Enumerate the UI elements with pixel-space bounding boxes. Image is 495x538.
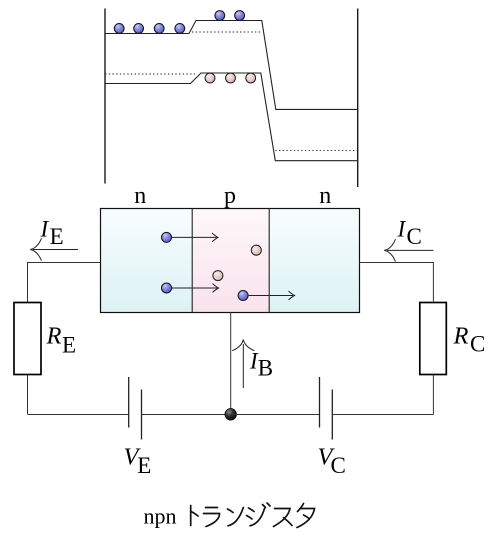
emitter-base junction <box>191 209 193 313</box>
hole band 1 <box>205 73 215 83</box>
caption katakana to <box>191 506 198 526</box>
base wire <box>230 313 232 415</box>
electron in emitter <box>162 232 172 242</box>
svg-text:n: n <box>134 183 146 209</box>
collector wire top <box>360 263 434 303</box>
caption katakana n <box>228 508 244 526</box>
band diagram left boundary <box>104 9 106 184</box>
svg-text:C: C <box>470 332 485 357</box>
battery VE left plate <box>128 377 130 428</box>
hole band 2 <box>226 73 236 83</box>
wire to RC <box>432 375 434 415</box>
svg-text:p: p <box>224 183 236 209</box>
dotted level right <box>275 149 357 151</box>
caption katakana ji <box>247 503 271 526</box>
electron flow arrow 1 <box>172 233 218 242</box>
caption katakana ta <box>297 504 315 528</box>
wire RE to bottom <box>27 375 29 415</box>
hole in base 2 <box>213 271 223 281</box>
caption katakana ra <box>204 508 220 527</box>
electron band 5 <box>215 11 225 21</box>
electron flow arrow 3 <box>249 291 295 300</box>
battery VE right plate <box>141 390 143 440</box>
svg-text:B: B <box>258 356 273 381</box>
hole band 3 <box>246 73 256 83</box>
IB arrow <box>232 340 254 389</box>
bottom left wire <box>28 414 129 416</box>
svg-text:n: n <box>319 183 331 209</box>
electron flow arrow 2 <box>172 284 219 293</box>
dotted level left <box>105 73 195 75</box>
electron band 1 <box>114 24 124 34</box>
band diagram right boundary <box>357 9 359 188</box>
IC arrow <box>384 239 433 261</box>
resistor RE <box>14 303 41 375</box>
ground node <box>225 409 237 421</box>
electron band 3 <box>154 24 164 34</box>
transistor body outline <box>101 209 360 313</box>
svg-text:I: I <box>397 216 407 241</box>
valence band edge <box>105 73 358 161</box>
dotted level middle <box>192 31 262 33</box>
base p region <box>192 209 269 313</box>
electron band 6 <box>235 11 245 21</box>
svg-text:E: E <box>137 453 151 478</box>
wire node to VC <box>231 414 320 416</box>
battery VC right plate <box>331 390 333 440</box>
emitter wire top <box>28 263 101 303</box>
IE arrow <box>30 238 78 260</box>
electron crossing to collector <box>238 291 248 301</box>
electron in emitter 2 <box>162 283 172 293</box>
svg-text:C: C <box>331 453 346 478</box>
svg-text:C: C <box>407 224 422 249</box>
svg-text:E: E <box>62 332 76 357</box>
electron band 2 <box>134 24 144 34</box>
electron band 4 <box>175 24 185 34</box>
battery VC left plate <box>319 377 321 428</box>
svg-text:R: R <box>46 323 62 350</box>
resistor RC <box>420 303 447 375</box>
svg-text:npn: npn <box>144 504 177 529</box>
base-collector junction <box>268 209 270 313</box>
svg-text:I: I <box>40 217 50 242</box>
wire VE to ground node <box>142 414 231 416</box>
hole in base 1 <box>251 245 261 255</box>
svg-text:R: R <box>453 323 469 350</box>
collector n region <box>269 209 360 313</box>
bottom right wire <box>332 414 433 416</box>
emitter n region <box>101 209 193 313</box>
svg-text:E: E <box>50 224 64 249</box>
caption katakana su <box>274 509 293 527</box>
conduction band edge <box>105 21 358 110</box>
